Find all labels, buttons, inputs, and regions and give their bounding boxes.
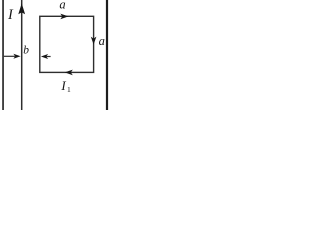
- b dimension right line: [46, 56, 51, 58]
- loop bottom arrow (left): [65, 70, 73, 76]
- wire (straight conductor with current I): [21, 0, 23, 110]
- svg-text:a: a: [99, 34, 105, 48]
- loop (square, side a): [40, 16, 94, 72]
- background: [0, 0, 110, 110]
- right border bar: [106, 0, 108, 110]
- svg-text:1: 1: [67, 85, 71, 94]
- b dimension right arrowhead (left, tip at loop side): [41, 54, 48, 59]
- loop right arrow (down): [91, 37, 97, 45]
- b dimension left line: [4, 55, 15, 57]
- svg-text:I: I: [60, 78, 66, 93]
- b dimension left arrowhead (right, tip at wire): [13, 54, 20, 59]
- svg-text:b: b: [23, 45, 29, 57]
- wire current arrowhead (up): [18, 3, 25, 14]
- svg-text:a: a: [59, 0, 65, 11]
- loop top arrow (right): [60, 14, 68, 20]
- left border bar: [2, 0, 4, 110]
